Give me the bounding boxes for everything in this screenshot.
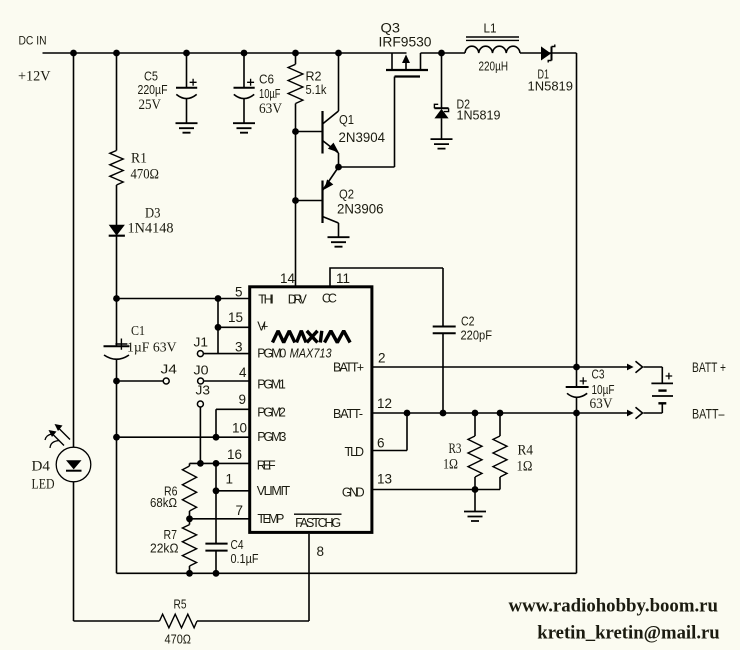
junction dot R3 top	[472, 410, 479, 417]
capacitor C4	[205, 537, 258, 573]
svg-text:1N4148: 1N4148	[128, 221, 174, 237]
svg-text:10µF: 10µF	[592, 383, 615, 397]
svg-text:DC IN: DC IN	[19, 34, 47, 48]
svg-text:15: 15	[228, 310, 243, 325]
battery BATT pack	[651, 373, 673, 413]
wire J4 to rail	[117, 380, 164, 382]
svg-text:C6: C6	[259, 72, 274, 87]
IC U1 right pin labels	[333, 361, 365, 500]
svg-text:C1: C1	[131, 324, 145, 339]
svg-text:68kΩ: 68kΩ	[150, 495, 177, 510]
junction dot Q1/Q2 emitter node	[335, 164, 342, 171]
svg-text:2: 2	[378, 351, 386, 366]
wire ground stub R3	[474, 490, 476, 512]
diode D1 1N5819 schottky	[528, 45, 574, 94]
IC U1 FASTCHG overline	[294, 513, 342, 515]
wire pin 9 PGM2	[216, 409, 249, 437]
connector chevron BATT+	[636, 361, 643, 373]
svg-text:22kΩ: 22kΩ	[150, 541, 179, 556]
wire pin 3 PGM0	[204, 353, 249, 355]
diode D3 1N4148	[109, 206, 174, 237]
connector chevron BATT-	[636, 407, 643, 419]
svg-text:R5: R5	[174, 597, 187, 612]
wire pin 4 PGM1	[204, 380, 249, 382]
diode D2 1N5819	[434, 53, 500, 139]
transistor Q2 2N3906	[296, 167, 384, 237]
node DC IN label	[18, 34, 51, 85]
junction dot rail/THI	[113, 295, 120, 302]
svg-text:VLIMIT: VLIMIT	[257, 484, 291, 498]
wire gate link to Q3	[339, 77, 395, 168]
IC U1 left pin labels	[257, 292, 341, 530]
svg-text:LED: LED	[32, 477, 55, 493]
junction dot rail/PGM3	[113, 434, 120, 441]
ground under C6	[233, 123, 255, 133]
svg-text:C2: C2	[461, 314, 475, 329]
svg-text:BATT-: BATT-	[333, 407, 363, 421]
wire pin 2 BATT+	[373, 366, 627, 368]
svg-text:220pF: 220pF	[461, 328, 493, 343]
connector arrow BATT+	[627, 364, 634, 371]
junction dot R7/bottom	[186, 570, 193, 577]
svg-text:14: 14	[280, 271, 296, 286]
wire REF to VLIMIT to C4 vertical	[215, 463, 217, 543]
wire pin 5 THI	[117, 298, 249, 300]
junction dot J3/REF	[197, 460, 204, 467]
jumper J1	[194, 335, 209, 357]
wire right rail from D1 down to bottom	[576, 53, 578, 573]
inductor L1 220uH	[465, 21, 520, 74]
svg-text:IRF9530: IRF9530	[379, 35, 432, 50]
svg-text:C4: C4	[231, 537, 244, 552]
svg-text:PGM2: PGM2	[257, 406, 286, 420]
resistor R4	[493, 413, 534, 490]
junction dot VLIMIT tap	[213, 487, 220, 494]
junction dot C4/bottom	[213, 570, 220, 577]
wire top supply rail right segment	[421, 52, 577, 54]
svg-text:C3: C3	[592, 367, 605, 382]
svg-text:D4: D4	[32, 459, 51, 475]
svg-text:J3: J3	[196, 383, 211, 398]
junction dot Q2 base	[292, 197, 299, 204]
svg-text:10: 10	[232, 421, 247, 436]
svg-text:www.radiohobby.boom.ru: www.radiohobby.boom.ru	[509, 596, 719, 617]
svg-text:6: 6	[377, 436, 385, 451]
junction dot R6/TEMP	[186, 515, 193, 522]
svg-text:R2: R2	[306, 69, 322, 84]
svg-text:D3: D3	[145, 206, 161, 222]
svg-text:MAX713: MAX713	[290, 346, 333, 361]
svg-text:63V: 63V	[259, 101, 282, 117]
svg-text:1Ω: 1Ω	[517, 459, 533, 475]
svg-text:5.1k: 5.1k	[306, 83, 328, 97]
junction dot rail/BATT+	[573, 364, 580, 371]
junction dot rail/BATT-	[573, 410, 580, 417]
ground under Q2	[328, 237, 350, 247]
transistor Q1 2N3904	[296, 53, 386, 167]
svg-text:kretin_kretin@mail.ru: kretin_kretin@mail.ru	[537, 623, 720, 644]
svg-text:TEMP: TEMP	[257, 512, 284, 526]
junction dot top rail Q3 drain / D2 / L1	[438, 50, 445, 57]
svg-text:L1: L1	[484, 21, 497, 36]
svg-text:PGM0: PGM0	[257, 347, 286, 361]
svg-text:THI: THI	[258, 293, 274, 307]
junction dot REF tap	[213, 460, 220, 467]
jumper J4	[161, 362, 178, 385]
junction dot PGM2/PGM3	[213, 434, 220, 441]
svg-text:220µF: 220µF	[138, 83, 168, 97]
junction dot top rail C6	[241, 50, 248, 57]
svg-text:13: 13	[377, 471, 392, 486]
jumper J3	[196, 383, 211, 408]
wire pin 1 VLIMIT	[216, 490, 249, 492]
svg-text:3: 3	[235, 340, 243, 355]
svg-text:5: 5	[235, 285, 243, 300]
svg-text:R1: R1	[131, 151, 147, 167]
svg-text:BATT +: BATT +	[692, 360, 726, 375]
wire pin 11 CC to C2	[330, 268, 443, 327]
svg-text:BATT+: BATT+	[333, 361, 364, 375]
wire pin 10 PGM3	[117, 436, 249, 438]
svg-text:C5: C5	[144, 69, 158, 84]
svg-text:+12V: +12V	[18, 69, 51, 85]
svg-text:PGM1: PGM1	[257, 378, 286, 392]
svg-text:R4: R4	[518, 443, 534, 459]
ground under D2	[431, 139, 453, 149]
junction dot R3/GND	[472, 486, 479, 493]
capacitor C3	[566, 367, 615, 412]
junction dot top rail R2	[292, 50, 299, 57]
wire left rail through LED	[73, 53, 75, 621]
ground under R3	[464, 512, 486, 522]
IC U1 MAX713 box	[250, 287, 372, 533]
wire pin 7 TEMP	[190, 518, 249, 520]
jumper J0	[194, 363, 209, 385]
IC U1 pin numbers	[225, 271, 392, 559]
junction dot top rail C5	[183, 50, 190, 57]
wire pin 15 V+	[218, 299, 249, 354]
junction dot top rail x=116.5	[113, 50, 120, 57]
wire pin 6 TLD	[373, 413, 407, 451]
svg-text:25V: 25V	[139, 97, 162, 113]
svg-text:Q1: Q1	[339, 112, 354, 127]
svg-text:7: 7	[235, 503, 243, 518]
wire bottom R5 run	[74, 620, 310, 622]
svg-text:BATT–: BATT–	[692, 407, 725, 422]
wire top supply rail left segment	[43, 52, 407, 54]
wire pin 13 GND	[373, 489, 500, 491]
svg-text:J4: J4	[161, 362, 178, 377]
svg-text:8: 8	[317, 544, 325, 559]
wire V+ branch rail x=116.5	[116, 53, 118, 573]
resistor R7	[150, 519, 197, 574]
junction dot V+ tap	[215, 324, 222, 331]
wire bottom ground run	[117, 572, 577, 574]
resistor R1	[110, 151, 159, 186]
svg-text:TLD: TLD	[345, 445, 365, 459]
svg-text:11: 11	[336, 271, 350, 286]
svg-text:12: 12	[377, 396, 392, 411]
LED D4	[32, 424, 91, 493]
svg-text:1N5819: 1N5819	[528, 79, 574, 94]
wire pin 16 REF	[190, 462, 249, 464]
junction dot R4 top	[497, 410, 504, 417]
svg-text:DRV: DRV	[288, 293, 308, 307]
capacitor C5	[138, 53, 198, 123]
capacitor C1	[104, 324, 177, 359]
wire J3 drop to REF node	[199, 407, 201, 463]
capacitor C6	[234, 53, 283, 123]
wire DRV rail x=295.5	[295, 53, 297, 287]
svg-text:9: 9	[238, 392, 246, 407]
connector arrow BATT-	[627, 410, 634, 417]
svg-text:0.1µF: 0.1µF	[231, 551, 259, 566]
junction dot top rail Q1 collector	[335, 50, 342, 57]
svg-text:2N3906: 2N3906	[337, 202, 384, 217]
svg-text:FASTCHG: FASTCHG	[295, 516, 341, 530]
junction dot rail/J4	[113, 378, 120, 385]
junction dot TLD tap	[404, 410, 411, 417]
svg-text:63V: 63V	[590, 396, 613, 412]
junction dot Q1 base	[292, 128, 299, 135]
resistor R6	[150, 463, 197, 518]
svg-text:16: 16	[227, 447, 242, 462]
wire BATT- from battery	[644, 412, 663, 414]
svg-text:PGM3: PGM3	[257, 430, 286, 444]
svg-text:470Ω: 470Ω	[131, 167, 160, 183]
svg-text:470Ω: 470Ω	[165, 632, 192, 647]
junction dot C2 tap	[440, 410, 447, 417]
svg-text:220µH: 220µH	[479, 60, 509, 74]
svg-text:2N3904: 2N3904	[339, 130, 386, 145]
transistor Q3 IRF9530	[379, 21, 432, 77]
svg-text:V+: V+	[257, 320, 268, 334]
wire pin 8 FASTCHG drop	[308, 534, 310, 621]
svg-text:J1: J1	[194, 335, 209, 350]
IC U1 MAXIM logo	[273, 331, 351, 343]
resistor R5	[160, 597, 198, 647]
svg-text:CC: CC	[322, 292, 337, 306]
svg-text:J0: J0	[194, 363, 209, 378]
svg-text:1Ω: 1Ω	[443, 457, 458, 473]
junction dot top rail x=73.5	[70, 50, 77, 57]
svg-text:10µF: 10µF	[259, 87, 281, 101]
ground under C5	[176, 123, 198, 133]
capacitor C2	[433, 314, 492, 413]
svg-text:4: 4	[239, 365, 247, 380]
svg-text:R3: R3	[449, 441, 462, 457]
svg-text:GND: GND	[342, 485, 365, 499]
svg-text:1N5819: 1N5819	[457, 108, 501, 123]
svg-text:Q3: Q3	[381, 21, 401, 36]
wire pin 12 BATT-	[373, 412, 627, 414]
resistor R2	[288, 64, 327, 103]
junction dot THI tap	[215, 295, 222, 302]
wire BATT+ to battery	[644, 367, 663, 383]
svg-text:Q2: Q2	[339, 187, 354, 202]
resistor R3	[443, 413, 482, 490]
svg-text:REF: REF	[257, 459, 276, 473]
svg-text:1µF 63V: 1µF 63V	[127, 341, 177, 356]
svg-text:1: 1	[225, 472, 233, 487]
